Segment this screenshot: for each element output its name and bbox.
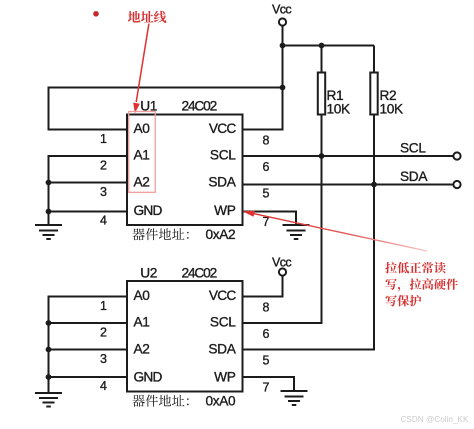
svg-text:7: 7 xyxy=(263,381,270,395)
power port Vcc top xyxy=(279,18,286,25)
annotation text address-line (Chinese, red) xyxy=(128,11,167,23)
power port Vcc U2 xyxy=(279,268,286,275)
ground symbol U2 left xyxy=(35,377,62,407)
ground symbol U2 WP xyxy=(281,391,308,405)
svg-text:VCC: VCC xyxy=(209,288,237,303)
node junction A0 loop on Vcc riser xyxy=(280,85,286,91)
svg-text:4: 4 xyxy=(100,379,107,393)
svg-text:A2: A2 xyxy=(134,175,150,190)
svg-text:3: 3 xyxy=(100,185,107,199)
svg-text:A0: A0 xyxy=(134,121,151,136)
svg-text:SDA: SDA xyxy=(208,342,236,357)
wire U2 pin3 A2 xyxy=(49,349,128,351)
wire SCL bus down to U2 pin6 xyxy=(243,156,322,323)
svg-text:1: 1 xyxy=(100,299,107,313)
wire SDA net xyxy=(243,184,454,186)
wire Vcc rail to resistors xyxy=(283,45,375,47)
node junction GND/gnd bus xyxy=(46,209,52,215)
wire U2 pin1 A0 to gnd bus xyxy=(49,297,128,379)
svg-text:6: 6 xyxy=(263,160,270,174)
node junction R1 top xyxy=(319,43,325,49)
wire U1 pin1 A0 to Vcc loop xyxy=(49,88,283,130)
resistor R2 xyxy=(370,46,377,185)
svg-text:A0: A0 xyxy=(134,288,151,303)
wire SCL net xyxy=(243,155,454,157)
svg-text:WP: WP xyxy=(214,370,236,385)
svg-text:10K: 10K xyxy=(380,102,404,117)
svg-text:SCL: SCL xyxy=(210,315,236,330)
svg-text:6: 6 xyxy=(263,327,270,341)
red annotation arrow to WP xyxy=(243,211,428,251)
svg-text:2: 2 xyxy=(100,326,107,340)
wire U1 pin7 WP to ground xyxy=(243,212,296,226)
svg-text:A1: A1 xyxy=(134,148,150,163)
svg-text:4: 4 xyxy=(100,214,107,228)
wire U2 pin7 WP to ground xyxy=(243,377,294,391)
red annotation arrow to A0 xyxy=(133,24,149,114)
node junction A2/gnd bus xyxy=(46,180,52,186)
svg-text:8: 8 xyxy=(263,134,270,148)
ground symbol U1 left xyxy=(35,212,62,240)
node junction U2 GND xyxy=(46,374,52,380)
resistor R1 xyxy=(318,46,325,157)
svg-text:A2: A2 xyxy=(134,342,150,357)
port SDA terminal xyxy=(453,181,460,188)
annotation text line3 (Chinese, red) xyxy=(386,295,422,307)
svg-text:5: 5 xyxy=(263,187,270,201)
annotation text line1 (Chinese, red) xyxy=(385,262,446,273)
svg-text:24C02: 24C02 xyxy=(182,99,217,114)
svg-text:3: 3 xyxy=(100,352,107,366)
svg-text:WP: WP xyxy=(214,203,236,218)
node junction Vcc rail xyxy=(280,43,286,49)
wire U1 pin2 A1 xyxy=(49,156,128,212)
red marker dot xyxy=(93,11,99,17)
annotation text line2 (Chinese, red) xyxy=(386,278,458,291)
node junction U2 A2 xyxy=(46,347,52,353)
svg-text:1: 1 xyxy=(100,132,107,146)
red highlight box around A0-A2 xyxy=(129,112,156,193)
svg-text:SDA: SDA xyxy=(208,175,236,190)
node junction SDA/R2 xyxy=(371,182,377,188)
svg-text:CSDN @Colin_KK: CSDN @Colin_KK xyxy=(401,415,469,424)
svg-text:Vcc: Vcc xyxy=(272,3,291,17)
wire U2 pin4 GND xyxy=(49,376,128,378)
svg-text:10K: 10K xyxy=(327,102,351,117)
wire U1 pin4 GND xyxy=(49,211,128,213)
IC U2 24C02 body xyxy=(127,281,243,392)
node junction U2 A1 xyxy=(46,320,52,326)
svg-text:SDA: SDA xyxy=(400,169,428,184)
svg-text:U2: U2 xyxy=(140,266,157,281)
wire U1 pin8 VCC to Vcc rail xyxy=(243,26,283,130)
wire U1 pin3 A2 xyxy=(49,182,128,184)
wire U2 pin8 VCC to Vcc port xyxy=(243,276,283,297)
svg-text:GND: GND xyxy=(134,203,163,218)
node junction SCL/R1 xyxy=(319,153,325,159)
svg-text:SCL: SCL xyxy=(210,148,236,163)
wire U2 pin2 A1 xyxy=(49,322,128,324)
U1 device address label (Chinese) xyxy=(132,228,188,240)
svg-text:8: 8 xyxy=(263,301,270,315)
svg-text:VCC: VCC xyxy=(209,121,237,136)
svg-text:Vcc: Vcc xyxy=(272,256,291,270)
IC U1 24C02 body xyxy=(127,115,243,226)
ground symbol U1 WP xyxy=(283,225,310,239)
svg-text:5: 5 xyxy=(263,354,270,368)
svg-text:24C02: 24C02 xyxy=(182,266,217,281)
svg-text:0xA0: 0xA0 xyxy=(206,394,237,409)
U2 device address label (Chinese) xyxy=(132,395,188,407)
wire SDA bus down to U2 pin5 xyxy=(243,185,374,350)
svg-text:2: 2 xyxy=(100,159,107,173)
port SCL terminal xyxy=(453,152,460,159)
svg-text:GND: GND xyxy=(134,370,163,385)
svg-text:SCL: SCL xyxy=(400,141,426,156)
svg-text:A1: A1 xyxy=(134,315,150,330)
svg-text:0xA2: 0xA2 xyxy=(206,227,236,242)
